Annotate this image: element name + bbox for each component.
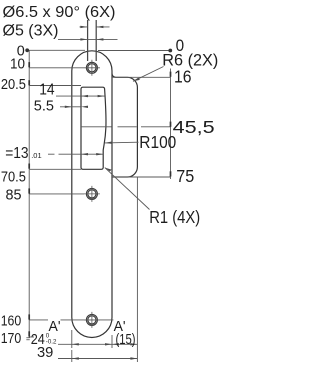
- svg-text:14: 14: [39, 82, 55, 99]
- screw hole 1 (top), countersunk Ø6.5/Ø5: [86, 62, 97, 73]
- extension line bottom right 24/(15): [111, 335, 113, 348]
- svg-text:Ø5 (3X): Ø5 (3X): [3, 23, 59, 40]
- svg-text:170: 170: [1, 330, 22, 347]
- svg-text:(15): (15): [116, 332, 136, 348]
- dimension line (15): [112, 343, 137, 345]
- svg-text:160: 160: [1, 313, 22, 330]
- leader R1: [105, 168, 150, 210]
- svg-text:70.5: 70.5: [1, 169, 26, 186]
- left ordinate baseline: [28, 50, 30, 337]
- centre cross hole 1: [84, 60, 100, 76]
- ordinate tick 75: [170, 171, 172, 176]
- screw hole 2 (middle): [86, 188, 97, 199]
- arrow R100: [105, 142, 112, 144]
- svg-text:=13: =13: [5, 145, 28, 162]
- dimension line 24: [58, 343, 112, 345]
- latch cutout with R100 right edge and R1 corners: [81, 87, 106, 169]
- ordinate tick 170: [28, 331, 30, 336]
- arrows 24: [72, 343, 79, 345]
- extension stub 20.5: [29, 85, 81, 87]
- ordinate tick 85: [28, 188, 30, 193]
- extension line lip right to 39: [136, 177, 138, 362]
- extension line 16: [112, 76, 171, 78]
- right ordinate baseline: [170, 69, 172, 180]
- dimension line 14: [56, 95, 105, 97]
- arrow R6: [133, 78, 140, 82]
- extension line 75: [112, 176, 171, 178]
- extension stub 160: [29, 319, 48, 321]
- leader R100: [105, 141, 139, 144]
- svg-text:=: =: [26, 337, 30, 344]
- leader R6: [133, 67, 164, 82]
- svg-text:R1 (4X): R1 (4X): [149, 207, 200, 227]
- dimension line 5.5: [60, 106, 81, 108]
- svg-text:20.5: 20.5: [1, 76, 26, 93]
- extension stub 70.5: [29, 168, 81, 170]
- dimension line 39: [58, 358, 137, 360]
- arrows (15): [112, 343, 119, 345]
- screw hole 3 (bottom): [86, 314, 97, 325]
- section line A-A': [61, 319, 114, 321]
- svg-text:R100: R100: [139, 132, 176, 152]
- extension line 45,5: [81, 126, 171, 128]
- svg-text:-0.2: -0.2: [46, 339, 57, 346]
- arrows =13: [81, 153, 88, 155]
- dimension line =13: [48, 153, 103, 155]
- svg-text:39: 39: [37, 345, 53, 361]
- arrows 39: [72, 357, 79, 359]
- extension stub 85: [29, 193, 84, 195]
- ordinate tick 20.5: [28, 80, 30, 85]
- arrows Ø6.5: [80, 26, 87, 28]
- extension stub 10: [29, 67, 84, 69]
- arrows 5.5: [65, 106, 72, 108]
- arrow R1: [105, 168, 112, 172]
- svg-text:10: 10: [10, 56, 25, 73]
- centre cross hole 2: [84, 186, 100, 202]
- svg-text:16: 16: [174, 66, 192, 86]
- leader line Ø6.5 x 90°: [80, 26, 110, 28]
- datum 0 line left: [27, 49, 85, 51]
- ordinate tick 160: [28, 314, 30, 319]
- datum 0 line right: [98, 50, 170, 52]
- datum origin dot left: [25, 48, 29, 52]
- leader line Ø5: [58, 38, 118, 40]
- ordinate tick 45,5: [170, 122, 172, 127]
- hole diameter extension lines going up to labels: [88, 20, 97, 61]
- lip flange on right side (R6 corners): [112, 74, 137, 177]
- svg-text:75: 75: [176, 166, 194, 186]
- extension stub 170: [29, 336, 34, 338]
- arrows 14: [81, 95, 88, 97]
- svg-text:A': A': [49, 318, 61, 335]
- svg-text:Ø6.5 x 90° (6X): Ø6.5 x 90° (6X): [3, 4, 116, 21]
- svg-text:85: 85: [6, 187, 22, 204]
- svg-text:.01: .01: [31, 151, 41, 160]
- ordinate tick 16: [170, 72, 172, 77]
- extension line bottom left 39: [71, 350, 73, 362]
- centre cross hole 3: [84, 312, 100, 328]
- svg-text:5.5: 5.5: [34, 99, 54, 115]
- datum origin dot right: [168, 49, 172, 53]
- svg-text:45,5: 45,5: [173, 117, 215, 137]
- arrows Ø5: [80, 38, 87, 40]
- extension line bottom left 24: [71, 330, 73, 348]
- ordinate tick 70.5: [28, 164, 30, 169]
- strike plate outline (rounded ends, R12): [72, 51, 112, 338]
- ordinate tick 10: [28, 62, 30, 67]
